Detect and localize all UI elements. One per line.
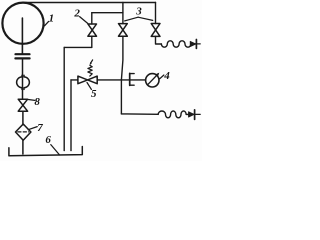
wire suction vertical <box>22 59 24 100</box>
filter F7 diamond <box>16 124 31 140</box>
wire drain B to tank <box>70 80 72 151</box>
port P2 line <box>189 113 201 115</box>
wire valve8 to filter <box>22 111 24 124</box>
wire branch to valve3L <box>122 3 124 24</box>
wire gauge branch <box>121 79 145 81</box>
flange bar upper <box>16 53 30 55</box>
valve V3 right bowtie <box>151 24 160 37</box>
valve V2 bowtie <box>88 24 97 36</box>
svg-text:4: 4 <box>163 70 170 82</box>
gauge damper bar <box>129 73 131 85</box>
leader 7 <box>28 127 37 130</box>
filter dashed element <box>18 131 29 133</box>
leader 2 <box>80 17 88 24</box>
gauge damper arm top <box>130 73 134 75</box>
hose bottom wavy <box>158 111 188 118</box>
leader 3 left <box>125 17 138 21</box>
svg-text:3: 3 <box>135 6 142 18</box>
svg-text:7: 7 <box>37 122 43 134</box>
relief valve spring <box>88 65 92 76</box>
wire bottom run <box>121 113 158 115</box>
gauge G4 circle <box>146 74 159 87</box>
leader 6 <box>51 145 60 155</box>
flange bar lower <box>15 57 29 59</box>
gauge needle <box>148 74 158 85</box>
gauge damper arm bottom <box>130 84 134 86</box>
port P1 arrow <box>190 41 196 46</box>
wire drain A to tank <box>63 47 65 150</box>
leader 3 right <box>138 17 153 20</box>
wire relief to main <box>97 79 121 81</box>
wire tee to valve2 <box>92 12 123 14</box>
wire filter to tank <box>22 140 24 154</box>
svg-text:2: 2 <box>73 7 80 19</box>
port P2 arrow <box>189 112 195 117</box>
svg-text:5: 5 <box>91 88 97 100</box>
leader 4 <box>160 75 164 79</box>
tank T6 <box>9 147 82 156</box>
wire relief line left <box>71 79 78 81</box>
wire jog left <box>64 46 92 48</box>
leader 1 <box>44 21 48 26</box>
gauge needle arrowhead <box>156 73 159 77</box>
wire valve3R to hose <box>156 36 162 44</box>
svg-text:8: 8 <box>34 96 40 108</box>
leader 5 <box>87 83 91 90</box>
svg-text:1: 1 <box>49 13 55 25</box>
relief valve arrow <box>91 60 93 63</box>
hose top wavy <box>161 41 192 47</box>
wire pressure top line <box>23 2 156 4</box>
valve V8 bowtie <box>18 99 27 111</box>
pump shaft line <box>21 18 23 54</box>
wire valve2 stub <box>91 13 93 24</box>
port P2 tick <box>194 110 196 120</box>
wire valve2 down <box>91 36 93 47</box>
coupling left arc <box>17 75 22 89</box>
leader 8 <box>28 99 35 102</box>
wire main vertical <box>121 36 123 114</box>
coupling right arc <box>24 75 29 89</box>
wire valve3R drop <box>155 3 157 24</box>
port P1 line <box>191 43 200 45</box>
valve V3 left bowtie <box>119 24 128 37</box>
relief valve V5 bowtie <box>78 76 97 84</box>
pump circle 1 <box>2 3 43 44</box>
port P1 tick <box>195 40 197 49</box>
